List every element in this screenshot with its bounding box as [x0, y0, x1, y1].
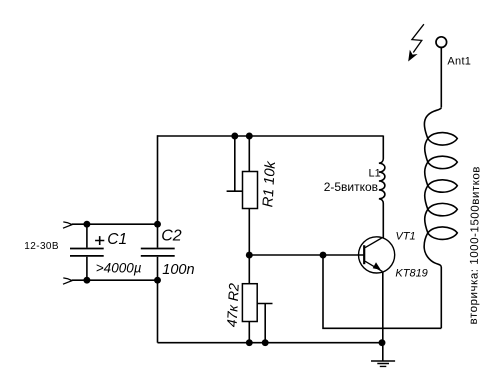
connector arrow top: [63, 222, 72, 228]
transistor emitter arrowhead: [373, 262, 381, 270]
wire bottom rail: [158, 342, 383, 344]
secondary coil loop 4: [428, 203, 458, 215]
wire bottom input rail: [72, 279, 158, 281]
svg-text:вторичка: 1000-1500витков: вторичка: 1000-1500витков: [468, 166, 483, 325]
wire top input rail: [72, 223, 158, 225]
resistor R2 wires: [248, 255, 250, 343]
junction dot input bottom: [83, 277, 90, 284]
junction dot C2 bottom: [154, 277, 161, 284]
junction dot R1 top: [246, 133, 253, 140]
svg-text:C2: C2: [161, 228, 182, 245]
wire emitter vertical: [382, 272, 384, 361]
antenna lead wire: [440, 47, 442, 107]
junction dot input top: [83, 221, 90, 228]
junction dot R1 tap top: [231, 133, 238, 140]
svg-text:12-30В: 12-30В: [24, 241, 59, 252]
antenna Ant1 circle: [436, 37, 447, 48]
connector arrow bottom: [63, 278, 72, 284]
resistor R1 wires: [248, 136, 250, 255]
secondary coil loop 3: [428, 180, 458, 192]
transistor VT1 circle: [359, 237, 395, 273]
svg-text:KT819: KT819: [395, 268, 427, 280]
secondary coil loop 1: [428, 133, 458, 145]
wire mid rail (R1 bottom to transistor base): [249, 254, 364, 256]
C1 plus sign: [95, 236, 104, 245]
svg-text:VT1: VT1: [396, 231, 416, 243]
svg-text:47к R2: 47к R2: [224, 283, 242, 328]
svg-text:2-5витков: 2-5витков: [324, 180, 378, 194]
junction dot R2 bottom: [246, 339, 253, 346]
inductor L1: [379, 136, 385, 207]
lightning bolt line: [412, 24, 424, 52]
wire left vertical upper (to C2 top plate): [157, 135, 159, 247]
resistor R2 body: [242, 284, 257, 322]
junction dot R1 bottom / mid rail: [246, 252, 253, 259]
svg-text:100n: 100n: [162, 262, 194, 278]
wire feedback (base node down and right to coil bottom): [323, 255, 441, 328]
svg-text:Ant1: Ant1: [447, 56, 471, 68]
secondary coil left strand: [424, 107, 441, 328]
capacitor C1 plates: [70, 249, 104, 256]
wire top rail: [158, 135, 384, 137]
svg-text:R1 10k: R1 10k: [260, 160, 279, 208]
capacitor C2 plates: [141, 249, 175, 256]
junction dot base node: [320, 252, 327, 259]
secondary coil loop 2: [428, 156, 458, 168]
ground: [371, 361, 395, 366]
lightning bolt arrowhead: [408, 50, 417, 62]
junction dot C2 top: [154, 221, 161, 228]
R2 tap wire: [257, 304, 272, 343]
svg-text:>4000µ: >4000µ: [96, 260, 142, 275]
junction dot ground node: [379, 339, 386, 346]
svg-text:L1: L1: [369, 168, 381, 180]
capacitor C1 wires: [86, 224, 88, 280]
wire collector vertical: [382, 206, 384, 238]
secondary coil loop 5: [428, 227, 458, 239]
svg-text:C1: C1: [107, 231, 127, 248]
R1 tap wire: [227, 136, 243, 191]
transistor VT1 collector slant: [365, 237, 383, 247]
transistor VT1 emitter slant: [365, 261, 382, 271]
transistor VT1 base bar: [363, 245, 365, 264]
resistor R1 body: [243, 172, 258, 209]
wire left vertical lower (C2 bottom to bottom rail): [157, 257, 159, 343]
junction dot R2 tap: [262, 339, 269, 346]
